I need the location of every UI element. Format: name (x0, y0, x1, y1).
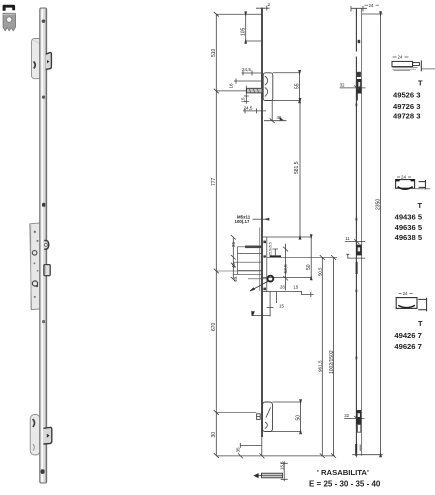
dim 2 top (256, 6, 270, 11)
top line to dim (362, 13, 383, 15)
case inner left edge (266, 237, 268, 292)
rail break mark (358, 40, 361, 43)
svg-text:2350: 2350 (376, 199, 382, 210)
BOTTOM TEXT (309, 468, 381, 489)
svg-text:510: 510 (211, 48, 217, 57)
faceplate bar (40, 8, 47, 483)
bottom keep (263, 402, 273, 432)
nightlatch bar (245, 246, 262, 249)
faceplate tail (261, 437, 263, 456)
keep centerline (216, 412, 256, 414)
dim 50 case (310, 237, 312, 278)
svg-text:35: 35 (235, 447, 240, 453)
svg-text:55: 55 (294, 83, 300, 89)
keep box lines (265, 73, 301, 101)
bottom keep box (265, 402, 302, 432)
case lower line (262, 291, 314, 297)
faceplate slot b (263, 255, 266, 257)
icon 2 bracket (419, 180, 426, 189)
cylinder leader (250, 281, 268, 291)
dim 46 (264, 100, 287, 120)
svg-text:49626 7: 49626 7 (394, 342, 421, 351)
rail rivet c (356, 290, 358, 293)
dim 15 below (267, 292, 277, 317)
hook 1 (357, 72, 361, 77)
svg-text:T: T (418, 319, 423, 328)
hook2 tail (356, 262, 358, 274)
E mark (257, 414, 261, 420)
rail rivet a (356, 104, 358, 107)
svg-text:50: 50 (306, 264, 312, 270)
top extension line (216, 13, 262, 15)
svg-text:15: 15 (279, 303, 284, 308)
svg-text:2: 2 (268, 2, 271, 7)
case hole dots (32, 251, 37, 256)
icon 2 roller section (396, 180, 415, 189)
svg-text:15: 15 (294, 285, 299, 290)
dim 2350 (380, 14, 382, 455)
MIDDLE DRAWING (211, 2, 337, 482)
case left leaders (233, 247, 262, 274)
follower mark (270, 255, 281, 257)
svg-text:49726 3: 49726 3 (393, 102, 420, 111)
PHOTO (3, 5, 52, 483)
latch bolt (247, 88, 263, 93)
svg-text:25: 25 (231, 242, 236, 247)
follower centerline (267, 256, 337, 258)
latch keep plate (263, 73, 273, 101)
svg-text:24: 24 (403, 291, 408, 296)
svg-text:581,5: 581,5 (294, 161, 300, 174)
bottom reference line (216, 455, 335, 457)
faceplate edge line (261, 8, 263, 437)
svg-text:24: 24 (401, 175, 406, 180)
screw leader (253, 218, 267, 220)
screw hole mid3 (42, 320, 45, 323)
dim 53.5 (283, 244, 288, 291)
svg-text:24: 24 (369, 3, 375, 8)
top keep plate (32, 39, 42, 79)
svg-text:32: 32 (344, 413, 349, 418)
svg-text:53,5: 53,5 (283, 264, 289, 274)
dim 35 (240, 443, 262, 448)
case top edge (262, 236, 312, 238)
icon 3 latch section (396, 298, 417, 309)
top hook (46, 53, 52, 70)
screw hole mid1 (42, 96, 45, 99)
cylinder circle (268, 276, 274, 282)
hook 2 (356, 245, 362, 256)
ICONS AND PART NUMBERS (392, 55, 435, 351)
svg-text:49526 3: 49526 3 (393, 90, 420, 99)
svg-text:' RASABILITA': ' RASABILITA' (317, 468, 369, 477)
dim 15 (244, 86, 249, 104)
svg-text:28: 28 (280, 285, 285, 290)
dim 961.5 (320, 255, 325, 458)
rail foot (355, 444, 357, 456)
rasability section (255, 475, 263, 477)
svg-text:670: 670 (211, 322, 217, 331)
svg-text:25,5x5,5: 25,5x5,5 (269, 242, 273, 256)
profile rail left line (355, 8, 357, 456)
dim 55 (299, 73, 301, 101)
profile rail right line (361, 8, 363, 456)
screw hole mid2 (42, 203, 46, 207)
case bottom internal (262, 277, 312, 279)
hook1 tail (356, 94, 358, 101)
line y41 (246, 40, 262, 42)
svg-text:45: 45 (231, 263, 236, 268)
svg-text:25: 25 (233, 276, 238, 281)
svg-text:15: 15 (241, 97, 246, 103)
keep plate icon (3, 13, 16, 31)
svg-text:105: 105 (240, 27, 246, 36)
roller pin (44, 240, 49, 249)
faceplate slot a (263, 241, 266, 244)
svg-text:T: T (418, 201, 423, 210)
RIGHT DRAWING (340, 3, 383, 457)
svg-text:30: 30 (211, 432, 217, 438)
left main dim line (215, 14, 217, 455)
deadbolt (44, 265, 50, 276)
bottom line (352, 452, 382, 457)
svg-text:E = 25 - 30 - 35 - 40: E = 25 - 30 - 35 - 40 (309, 480, 381, 489)
svg-text:46: 46 (277, 115, 282, 120)
svg-text:1002/1502: 1002/1502 (329, 350, 335, 374)
svg-text:777: 777 (211, 177, 217, 186)
svg-text:24: 24 (398, 55, 403, 60)
svg-text:24,5: 24,5 (242, 67, 251, 72)
bottom latch (43, 427, 51, 444)
hook 2 lower line (346, 254, 365, 258)
dim 24 top (351, 6, 367, 12)
dim 105 (245, 14, 247, 41)
E arrow (252, 312, 270, 316)
icon 1 faceplate section (392, 61, 413, 66)
clip icon (3, 5, 16, 11)
bottom latch case (30, 415, 40, 456)
svg-text:15,5: 15,5 (279, 461, 284, 470)
left small dims (231, 235, 236, 282)
svg-text:16: 16 (228, 83, 233, 89)
rail rivet b (356, 218, 358, 221)
dim 50 bottom (300, 402, 302, 432)
icon 3 bracket (418, 298, 426, 312)
svg-text:49426 7: 49426 7 (394, 331, 421, 340)
hook 1 centerline (340, 87, 366, 89)
hook 3 centerline (344, 416, 364, 421)
dim 1002/1502 (331, 255, 336, 458)
rail rivet d (356, 357, 358, 360)
faceplate slot c (263, 288, 266, 291)
svg-text:50,5: 50,5 (317, 267, 322, 276)
hook 3 (356, 410, 361, 424)
svg-text:49638 5: 49638 5 (395, 233, 423, 242)
svg-text:49636 5: 49636 5 (395, 223, 423, 232)
central lock case (30, 223, 42, 310)
svg-text:50: 50 (295, 415, 301, 421)
dim 581.5 (299, 101, 301, 237)
svg-text:32: 32 (340, 83, 345, 88)
case rear edge (259, 228, 261, 292)
cylinder centerline (216, 271, 267, 279)
latch centerline (216, 90, 247, 92)
screw hole top (42, 20, 46, 23)
svg-text:49436 5: 49436 5 (395, 212, 423, 221)
svg-text:100(.17: 100(.17 (235, 219, 250, 224)
svg-text:T: T (418, 79, 423, 88)
svg-text:961,5: 961,5 (317, 360, 322, 372)
svg-text:11: 11 (345, 236, 350, 241)
svg-text:49728 3: 49728 3 (393, 111, 420, 120)
screw hole low (41, 469, 45, 474)
